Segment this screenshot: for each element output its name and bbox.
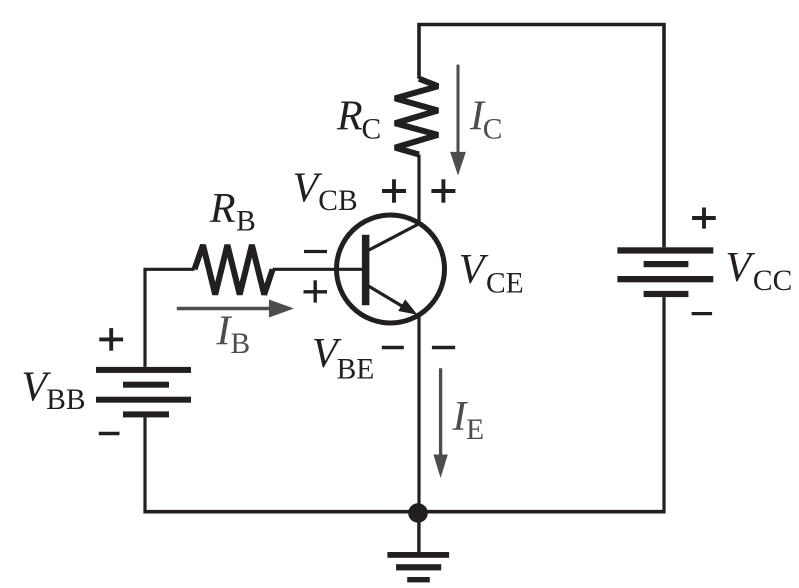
svg-text:BB: BB xyxy=(46,384,85,416)
plus sign VBE (below base wire) xyxy=(304,280,328,302)
svg-text:C: C xyxy=(483,114,503,146)
battery VBB plate 1 long xyxy=(96,367,191,373)
ground bar 3 xyxy=(407,577,430,582)
svg-text:B: B xyxy=(236,206,256,238)
svg-text:R: R xyxy=(209,186,236,232)
node emitter-ground junction dot xyxy=(408,503,428,523)
svg-text:V: V xyxy=(725,245,755,291)
battery VBB plate 2 short xyxy=(123,382,169,388)
ground bar 1 xyxy=(387,552,449,558)
current arrow IB xyxy=(177,300,294,318)
ground bar 2 xyxy=(396,564,441,570)
resistor RB zigzag xyxy=(195,245,273,295)
wire right (Vcc- to ground rail) xyxy=(662,297,665,512)
battery VCC plate 1 long xyxy=(617,247,713,253)
battery VBB plate 3 long xyxy=(96,397,191,403)
svg-text:C: C xyxy=(362,114,382,146)
svg-text:R: R xyxy=(336,93,363,139)
wire collector (resistor RC to transistor) xyxy=(417,155,420,225)
battery VBB plate 4 short xyxy=(123,411,169,417)
ground stem xyxy=(417,513,420,553)
plus sign VBB xyxy=(99,328,123,351)
minus sign VCE (right, below transistor) xyxy=(432,346,455,349)
svg-text:CB: CB xyxy=(318,185,357,217)
transistor Q1 emitter lead xyxy=(368,286,406,309)
svg-text:B: B xyxy=(231,328,251,360)
transistor Q1 emitter arrowhead xyxy=(398,299,417,314)
resistor RC zigzag xyxy=(395,79,438,155)
transistor Q1 base bar xyxy=(362,235,370,305)
svg-text:V: V xyxy=(459,247,489,293)
minus sign VCC xyxy=(692,312,713,315)
minus sign VCB (above base wire) xyxy=(304,250,327,253)
wire Vbb- to ground rail xyxy=(143,417,146,511)
svg-text:CC: CC xyxy=(753,265,792,297)
plus sign VCB (left of collector wire) xyxy=(382,179,406,202)
wire top (collector node to Vcc+) xyxy=(419,25,664,248)
transistor Q1 collector lead xyxy=(368,224,420,251)
svg-text:CE: CE xyxy=(486,268,524,300)
plus sign VCE (right of collector wire) xyxy=(431,179,455,202)
wire base (resistor RB to transistor base) xyxy=(273,268,362,271)
wire left (Vbb+ up to base node) xyxy=(145,269,195,367)
minus sign VBB xyxy=(99,432,120,436)
plus sign VCC xyxy=(692,208,716,229)
svg-text:E: E xyxy=(466,414,484,446)
transistor Q1 body circle xyxy=(337,215,445,323)
wire bottom ground rail xyxy=(143,510,665,514)
battery VCC plate 3 long xyxy=(617,276,713,282)
minus sign VBE (left, below transistor) xyxy=(382,346,404,349)
svg-text:BE: BE xyxy=(337,354,375,386)
battery VCC plate 4 short xyxy=(644,291,689,297)
battery VCC plate 2 short xyxy=(644,261,689,267)
wire emitter (transistor to ground node) xyxy=(417,314,420,513)
current arrow IE xyxy=(433,368,447,478)
current arrow IC xyxy=(450,65,466,176)
